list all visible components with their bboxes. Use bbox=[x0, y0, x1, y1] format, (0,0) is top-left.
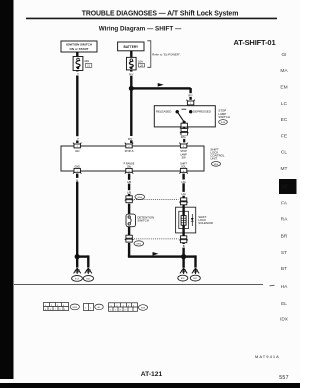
svg-text:Refer to “EL-POWER”.: Refer to “EL-POWER”. bbox=[152, 52, 181, 56]
svg-text:AT-SHIFT-01: AT-SHIFT-01 bbox=[234, 38, 276, 47]
svg-text:R/Y: R/Y bbox=[188, 94, 193, 98]
svg-text:ON or START: ON or START bbox=[70, 47, 89, 51]
svg-text:RELEASED: RELEASED bbox=[156, 110, 171, 114]
svg-text:EC: EC bbox=[281, 117, 288, 123]
svg-text:EM: EM bbox=[280, 85, 287, 91]
svg-text:LC: LC bbox=[281, 101, 288, 107]
svg-text:Wiring Diagram — SHIFT —: Wiring Diagram — SHIFT — bbox=[99, 26, 182, 33]
svg-text:FA: FA bbox=[281, 200, 288, 206]
svg-text:R/Y: R/Y bbox=[128, 137, 133, 141]
svg-text:DEPRESSED: DEPRESSED bbox=[193, 110, 211, 114]
svg-text:L/B: L/B bbox=[127, 191, 131, 195]
svg-text:BR: BR bbox=[281, 234, 288, 240]
svg-text:IDX: IDX bbox=[280, 317, 289, 323]
svg-text:AT-121: AT-121 bbox=[141, 371, 163, 378]
svg-text:IGN: IGN bbox=[75, 150, 80, 153]
svg-text:BT: BT bbox=[281, 266, 287, 272]
svg-text:BATTERY: BATTERY bbox=[123, 45, 139, 49]
svg-text:SOLENOID: SOLENOID bbox=[198, 221, 213, 225]
svg-text:MT: MT bbox=[281, 166, 288, 172]
svg-text:RA: RA bbox=[281, 217, 288, 223]
svg-text:SWITCH: SWITCH bbox=[137, 219, 148, 223]
svg-text:Y: Y bbox=[77, 72, 79, 76]
svg-text:L/B: L/B bbox=[127, 180, 131, 184]
svg-text:GI: GI bbox=[281, 52, 286, 58]
svg-text:10A: 10A bbox=[138, 60, 143, 64]
svg-text:B: B bbox=[183, 244, 185, 248]
svg-text:B: B bbox=[76, 178, 78, 182]
svg-text:L/G: L/G bbox=[181, 180, 185, 184]
svg-text:Y: Y bbox=[77, 137, 79, 141]
svg-text:SWITCH: SWITCH bbox=[218, 115, 229, 119]
svg-text:ST: ST bbox=[281, 250, 287, 256]
svg-text:AT: AT bbox=[282, 185, 288, 190]
svg-text:TROUBLE DIAGNOSES — A/T Shift: TROUBLE DIAGNOSES — A/T Shift Lock Syste… bbox=[82, 10, 239, 17]
svg-text:R/G: R/G bbox=[181, 135, 186, 139]
svg-text:STOP-S: STOP-S bbox=[125, 150, 134, 153]
svg-text:557: 557 bbox=[279, 375, 288, 381]
svg-text:MAT941A: MAT941A bbox=[255, 354, 280, 359]
svg-text:EL: EL bbox=[281, 301, 287, 307]
svg-text:UNIT: UNIT bbox=[210, 157, 217, 161]
svg-text:10A: 10A bbox=[84, 59, 89, 63]
svg-text:FE: FE bbox=[281, 133, 287, 139]
svg-text:CL: CL bbox=[281, 150, 287, 156]
svg-text:HA: HA bbox=[281, 284, 288, 290]
svg-text:L/G: L/G bbox=[181, 192, 185, 196]
svg-text:R/Y: R/Y bbox=[129, 72, 134, 76]
svg-text:MA: MA bbox=[280, 68, 288, 74]
